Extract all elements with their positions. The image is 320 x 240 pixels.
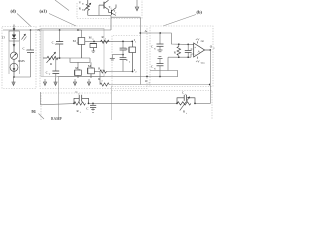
- wire minus input: [150, 71, 178, 77]
- capacitor Ct feedback: [176, 91, 195, 105]
- box (a1) dashed: [40, 26, 147, 89]
- wire node right: [14, 76, 31, 78]
- box (d) dashed: [2, 27, 36, 89]
- MOSFET M1: [73, 30, 85, 58]
- arrow ground x45: [43, 79, 46, 86]
- leader to top box: [55, 0, 69, 11]
- arrow down ground left: [12, 77, 15, 86]
- current source I1 circle: [10, 52, 17, 59]
- label (a1): [40, 8, 77, 26]
- resistor RL: [174, 43, 181, 57]
- resistor Rf: [74, 102, 89, 114]
- MOSFET M2: [75, 62, 82, 78]
- variable resistor Rt feedback: [177, 96, 196, 115]
- feedback wire bottom-left: [41, 92, 178, 105]
- svg-text:M: M: [88, 64, 91, 68]
- svg-text:RMS: RMS: [18, 59, 25, 63]
- arrow ground below CT: [54, 78, 57, 86]
- svg-text:91: 91: [32, 109, 36, 114]
- inner solid box inner: [42, 31, 44, 77]
- resistor R2: [98, 66, 106, 73]
- top supply rail: [3, 29, 111, 31]
- svg-text:+: +: [194, 46, 196, 50]
- svg-text:M: M: [73, 39, 76, 43]
- photodiode D1: [12, 32, 16, 42]
- node junction: [13, 76, 15, 78]
- wire rail to bias line: [111, 16, 140, 18]
- node I1: [131, 38, 137, 44]
- capacitor CL: [185, 44, 194, 58]
- bias vertical to node A: [139, 17, 147, 84]
- bottom-left dashed box: [41, 93, 112, 120]
- bias rail: [88, 14, 111, 16]
- op-amp U1: [194, 43, 205, 57]
- node CV/CT: [59, 57, 61, 59]
- inner solid box outer: [41, 28, 104, 76]
- MOSFET M3: [88, 62, 100, 78]
- output node O2: [205, 45, 216, 51]
- wire arrow diode to source: [13, 41, 16, 52]
- feedback wire right: [195, 50, 210, 103]
- svg-text:M: M: [89, 35, 92, 39]
- svg-text:C: C: [126, 47, 128, 51]
- capacitor Cs to ground: [86, 103, 96, 113]
- current source I2 circle: [10, 59, 18, 71]
- label (b): [163, 10, 202, 26]
- wire row3: [106, 68, 137, 74]
- resistor R1: [101, 35, 110, 43]
- lambda arrow: [22, 34, 27, 41]
- wire node to M1: [60, 57, 90, 59]
- capacitor Cg1: [151, 34, 164, 52]
- arrow ground below M3: [87, 79, 90, 86]
- svg-text:DD: DD: [201, 40, 205, 43]
- wire row4: [109, 84, 210, 86]
- capacitor Cf: [73, 90, 88, 104]
- divider wire bottom boxes: [111, 86, 113, 120]
- svg-text:C: C: [126, 58, 128, 62]
- svg-text:M: M: [75, 66, 78, 70]
- top bias box dashed: [77, 0, 142, 19]
- capacitor C3: [120, 58, 131, 72]
- wire row2: [85, 41, 133, 43]
- wire arrow into diode box: [13, 25, 16, 32]
- MOSFET M2a: [89, 35, 97, 52]
- svg-text:bias: bias: [201, 62, 205, 65]
- bottom rail O: [58, 76, 179, 85]
- transistor T1: [99, 0, 112, 15]
- capacitor C1b: [120, 41, 131, 57]
- box (b) bottom dashed extension: [112, 86, 150, 88]
- capacitor C1 in d box: [23, 30, 35, 77]
- svg-text:(b): (b): [197, 10, 203, 15]
- capacitor CV: [52, 30, 64, 58]
- MOSFET M4: [129, 41, 136, 71]
- box (b) dashed: [150, 26, 213, 87]
- photodiode enclosure: [9, 31, 19, 41]
- label 91: [32, 109, 45, 119]
- lower rail b box: [168, 54, 194, 71]
- resistor R3: [98, 77, 109, 86]
- arrow ground below M2: [73, 79, 76, 86]
- svg-text:(d): (d): [11, 8, 17, 13]
- svg-text:A: A: [197, 49, 200, 53]
- b box input wire: [140, 32, 193, 44]
- svg-text:(a1): (a1): [40, 8, 48, 13]
- ground tee: [110, 55, 123, 60]
- rail corner up: [110, 15, 112, 30]
- bottom-right dashed box: [112, 91, 213, 121]
- wire R2 down: [99, 72, 101, 85]
- -V bias label: [196, 57, 205, 65]
- long vertical from rail: [58, 77, 60, 121]
- transistor T2: [109, 5, 118, 16]
- inner dashed box middle: [112, 36, 140, 87]
- capacitor Cg2: [151, 57, 164, 77]
- variable resistor Rx: [43, 52, 60, 66]
- wire source to node: [13, 71, 15, 77]
- capacitor CT: [46, 58, 60, 78]
- svg-text:−: −: [194, 53, 196, 57]
- +VDD label: [196, 38, 205, 44]
- variable resistor RB: [79, 0, 91, 15]
- label (d): [11, 8, 32, 26]
- svg-text:V: V: [55, 43, 57, 46]
- svg-text:RAMP: RAMP: [51, 117, 62, 120]
- arrow down in top box: [135, 0, 139, 11]
